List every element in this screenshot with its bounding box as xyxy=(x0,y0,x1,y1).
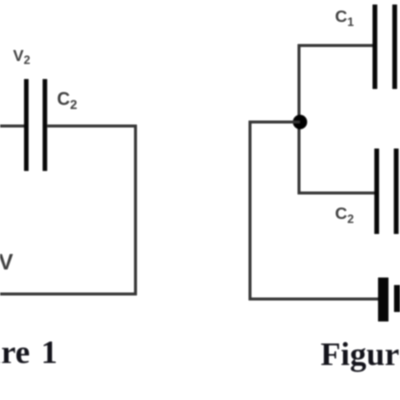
wire: node to left branch, down and along bottom to battery xyxy=(250,122,379,299)
svg-text:Figure 2: Figure 2 xyxy=(321,337,400,373)
capacitor C2 (figure 2) left plate xyxy=(374,149,379,235)
capacitor C2 left plate xyxy=(24,79,29,171)
capacitor C2 (figure 2) right plate xyxy=(394,149,399,235)
svg-text:V: V xyxy=(0,250,14,275)
node junction dot xyxy=(293,115,307,129)
svg-text:1: 1 xyxy=(41,335,58,371)
wire: top-right segment and right side and bottom of loop xyxy=(0,126,136,294)
wire: from node up-branch to capacitor C1 xyxy=(299,46,375,194)
battery right plate (cropped at right edge) xyxy=(394,285,400,312)
battery left thick plate xyxy=(378,278,389,322)
capacitor C2 right plate xyxy=(43,79,48,171)
svg-text:Figure: Figure xyxy=(0,335,30,371)
capacitor C1 left plate xyxy=(373,5,378,90)
capacitor C1 right plate xyxy=(392,5,397,90)
wire: left lead into capacitor C2 xyxy=(0,125,24,128)
